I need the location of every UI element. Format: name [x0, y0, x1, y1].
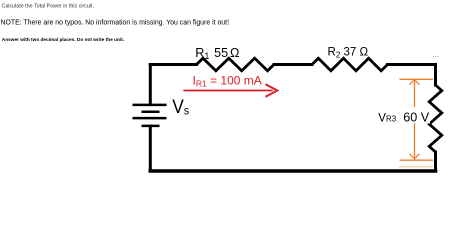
svg-text:R155Ω: R155Ω: [195, 46, 239, 61]
svg-text:R2 37 Ω: R2 37 Ω: [328, 47, 369, 60]
svg-text:Vs: Vs: [172, 97, 189, 118]
svg-text:...: ...: [433, 50, 440, 59]
svg-text:NOTE: There are no typos. No i: NOTE: There are no typos. No information…: [1, 20, 230, 27]
svg-text:Calculate the Total Power in t: Calculate the Total Power in this circui…: [2, 4, 95, 10]
svg-text:Answer with two decimal places: Answer with two decimal places. Do not w…: [2, 37, 125, 43]
svg-text:IR1 = 100 mA: IR1 = 100 mA: [193, 74, 262, 89]
